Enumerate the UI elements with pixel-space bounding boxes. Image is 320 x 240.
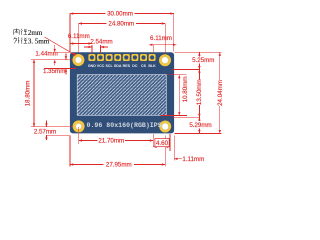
LCD screen hatched area <box>77 75 166 116</box>
pad BLK <box>149 54 156 61</box>
right extension lines <box>175 51 222 53</box>
pad RES <box>123 54 130 61</box>
svg-text:VCC: VCC <box>97 64 105 68</box>
svg-text:5.29mm: 5.29mm <box>189 122 211 129</box>
dimension 1.44mm <box>31 45 73 66</box>
PCB board <box>70 52 174 133</box>
svg-text:6.11mm: 6.11mm <box>68 33 90 40</box>
svg-text:RES: RES <box>123 64 131 68</box>
svg-text:2mm: 2mm <box>28 29 43 37</box>
dimension 24.80mm <box>79 20 166 54</box>
pad SCL <box>106 54 113 61</box>
dimension 6.11mm right <box>149 35 176 53</box>
dimension 24.04mm <box>217 52 224 133</box>
mounting hole bottom-right <box>159 121 171 133</box>
svg-text:0.96 80x160(RGB)IPS: 0.96 80x160(RGB)IPS <box>87 122 162 129</box>
dimension 2.57mm <box>34 120 70 140</box>
dimension 5.29mm <box>189 117 211 133</box>
pad CS <box>140 54 147 61</box>
svg-text:4.60: 4.60 <box>156 140 169 147</box>
svg-text:2.54mm: 2.54mm <box>90 38 112 45</box>
dimension 4.60 boxed <box>153 134 170 151</box>
svg-text:3. 5mm: 3. 5mm <box>28 38 50 46</box>
pad VCC <box>97 54 104 61</box>
svg-text:24.80mm: 24.80mm <box>108 20 134 27</box>
svg-text:1.35mm: 1.35mm <box>43 68 65 75</box>
mounting hole top-left <box>72 54 84 66</box>
dimension 2.54mm <box>84 38 113 53</box>
svg-text:BLK: BLK <box>148 64 156 68</box>
svg-text:GND: GND <box>88 64 96 68</box>
svg-text:27.95mm: 27.95mm <box>106 162 132 169</box>
label outer diameter 3.5mm (hand-drawn CJK 外径) <box>14 37 28 44</box>
dimension 1.35mm <box>43 54 76 76</box>
dimension 10.80mm <box>178 75 189 116</box>
svg-text:24.04mm: 24.04mm <box>217 80 224 106</box>
svg-text:1.44mm: 1.44mm <box>35 50 57 57</box>
dimension 13.50mm <box>196 69 203 117</box>
svg-text:2.57mm: 2.57mm <box>34 128 56 135</box>
dimension 1.11mm <box>174 136 204 164</box>
svg-text:SDA: SDA <box>114 64 122 68</box>
svg-text:18.80mm: 18.80mm <box>25 81 32 107</box>
leader line to hole <box>45 37 76 56</box>
svg-text:13.50mm: 13.50mm <box>196 79 203 105</box>
label inner diameter 2mm (hand-drawn CJK 内径) <box>14 28 28 35</box>
svg-text:CS: CS <box>141 64 147 68</box>
dimension 30.00mm <box>70 11 174 52</box>
pad DC <box>131 54 138 61</box>
svg-text:SCL: SCL <box>106 64 114 68</box>
pad SDA <box>114 54 121 61</box>
svg-text:5.25mm: 5.25mm <box>192 57 214 64</box>
mounting hole top-right <box>159 54 171 66</box>
svg-text:10.80mm: 10.80mm <box>182 77 189 103</box>
dimension 21.70mm <box>79 127 154 147</box>
pad GND <box>88 54 95 61</box>
dimension 18.80mm <box>25 60 73 127</box>
svg-text:DC: DC <box>132 64 138 68</box>
dimension 5.25mm <box>192 52 214 69</box>
mounting hole bottom-left <box>73 120 85 132</box>
dimension 6.11mm left <box>68 33 92 53</box>
svg-text:30.00mm: 30.00mm <box>107 11 133 18</box>
svg-text:21.70mm: 21.70mm <box>98 138 124 145</box>
svg-text:6.11mm: 6.11mm <box>150 35 172 42</box>
pad labels <box>88 64 156 68</box>
svg-text:1.11mm: 1.11mm <box>182 156 204 163</box>
dimension 27.95mm <box>70 136 165 169</box>
